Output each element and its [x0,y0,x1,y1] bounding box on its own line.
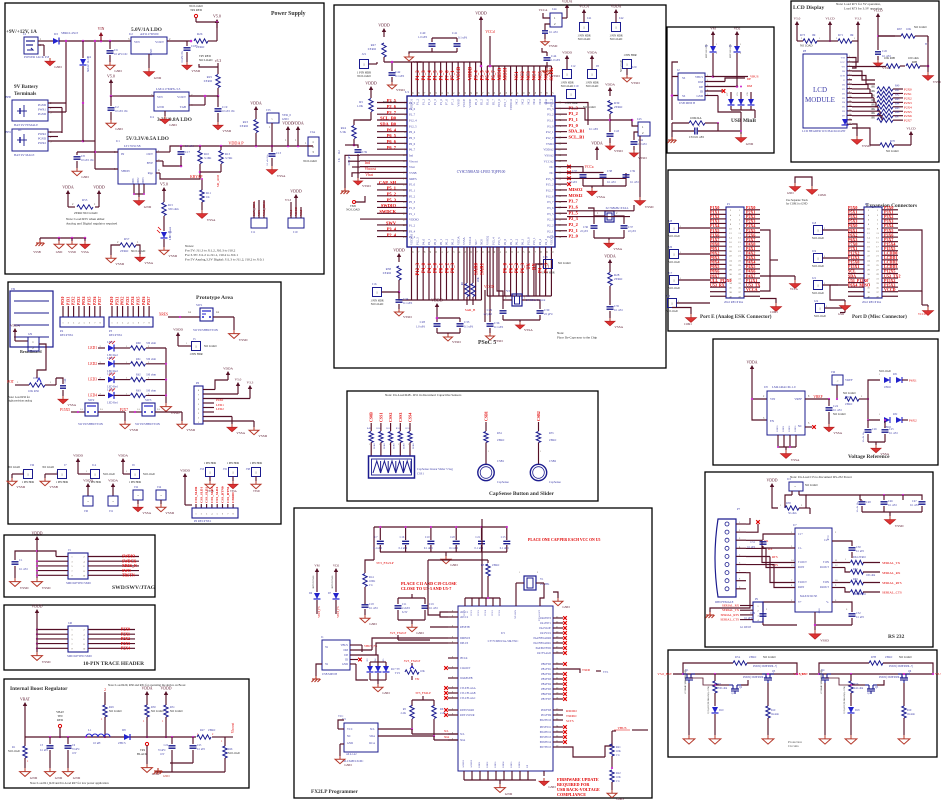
svg-text:IFCLK: IFCLK [460,657,468,660]
svg-text:R64 ZERO: R64 ZERO [853,556,866,559]
ground VCCD bottom right Port D [918,291,933,316]
ground VSSA under P6 [227,424,246,435]
svg-text:SCTS: SCTS [566,719,574,723]
svg-text:VSSA: VSSA [67,403,76,407]
ground VSSD under LED D6 [159,247,178,258]
test point VBAT TP0 RED [56,710,64,738]
svg-text:9: 9 [452,642,453,644]
svg-text:VSSD: VSSD [165,511,174,515]
resistor R62 100 ohm SERIAL_RX [832,568,901,578]
CapSense button CSB1 circle [478,459,510,484]
svg-text:NC: NC [347,735,351,738]
svg-text:VCC2: VCC2 [470,609,473,616]
resistor R26 NO LOAD right [221,737,240,772]
svg-text:C46: C46 [888,500,893,503]
svg-text:RDY0/SLRD: RDY0/SLRD [460,709,474,712]
ground under C18 [360,615,377,626]
svg-text:VCCA: VCCA [539,8,549,12]
svg-text:C8 0.01 uFd: C8 0.01 uFd [689,135,704,139]
label +9V/+12V 1A input [6,29,37,35]
svg-text:J16: J16 [372,282,377,286]
power flag VDDD above J10 [285,189,302,211]
svg-text:VDDA: VDDA [118,454,128,458]
svg-text:10K RIB: 10K RIB [884,56,895,60]
svg-text:NC2: NC2 [520,99,524,105]
svg-text:BZT52C5V6S: BZT52C5V6S [313,575,315,589]
svg-text:P12_3: P12_3 [416,237,420,245]
wire right bus from P2 rows to right edge [567,205,634,217]
svg-text:1: 1 [817,256,819,260]
ground VSSA under R57 right [135,254,154,265]
earth ground USB left [668,137,677,143]
block frame: CapSense Button and Slider [347,391,598,501]
ground under C28 C33 [444,333,462,344]
svg-text:C1-: C1- [798,547,802,550]
svg-text:VCCD: VCCD [918,313,926,316]
resistor R31 NO LOAD [162,700,183,738]
svg-text:VDDA: VDDA [605,83,615,87]
svg-text:R43: R43 [895,98,900,101]
power flag VDDD trace header [32,605,43,625]
ground VSSD under P6 [249,427,268,438]
svg-text:SS: SS [682,76,686,80]
resistor R7B ZERO NO LOAD bypass [819,656,933,674]
svg-text:BH1: BH1 [5,130,11,134]
wires SCL SDA to U5 [412,730,458,740]
red note PLACE ONE CAP [528,538,600,542]
svg-text:Prototype Area: Prototype Area [196,295,233,301]
svg-text:P2_2: P2_2 [569,222,578,227]
svg-text:V3.3: V3.3 [935,672,941,676]
ground under U5 right [539,778,556,789]
svg-text:V3.3: V3.3 [855,17,862,21]
svg-text:P7_0: P7_0 [445,99,449,106]
power flag V5.0 top [213,14,221,29]
svg-text:P2X2: P2X2 [121,637,130,641]
svg-text:R54: R54 [497,432,502,435]
power flag VDDA above P6 [223,367,233,381]
svg-text:VIN: VIN [134,40,140,44]
power flag VLCD bottom right [906,127,916,141]
svg-text:NC1: NC1 [515,71,520,81]
ground GND under C6 [63,768,81,780]
ground VSSD right LCD [923,66,941,84]
svg-text:P0X0: P0X0 [61,296,65,305]
ground under J36 [7,478,26,489]
svg-text:VCCA: VCCA [790,288,798,291]
svg-text:9: 9 [452,709,453,711]
svg-text:1: 1 [817,228,819,232]
bottom jumper J30 with VDDD [83,479,93,514]
svg-text:PB0/FD0: PB0/FD0 [541,663,552,666]
LED D4 with resistor R63 330 ohm [88,388,166,404]
transistor Q1 PMOS FDN306P [683,669,695,735]
svg-text:TAB: TAB [180,105,186,109]
svg-text:VSSD: VSSD [895,524,904,528]
svg-text:P15_1: P15_1 [532,237,536,245]
svg-text:12: 12 [849,105,851,107]
svg-text:R14: R14 [369,576,374,579]
svg-text:R1IN: R1IN [798,566,804,569]
svg-text:J24: J24 [814,299,819,303]
svg-text:22: 22 [556,678,558,680]
svg-text:1: 1 [540,451,541,453]
svg-text:PB3/FD3: PB3/FD3 [541,678,552,681]
svg-text:VSSD: VSSD [631,81,640,85]
svg-text:GND: GND [169,123,177,127]
svg-text:P2X1: P2X1 [904,92,912,96]
capacitor C41 0.1uFd [452,31,468,52]
resistor R26 ZERO [194,28,217,49]
svg-text:10K: 10K [871,103,876,106]
svg-text:CY7C68013A-56LTXC: CY7C68013A-56LTXC [488,639,519,643]
svg-text:VBUS: VBUS [695,75,703,79]
svg-text:J34: J34 [157,485,162,489]
svg-text:P2_3: P2_3 [547,218,554,222]
svg-text:J4: J4 [23,32,26,36]
svg-text:AP1117D500: AP1117D500 [140,32,159,36]
svg-text:ZERO: ZERO [204,79,213,83]
svg-text:PA4/FIFOADR0: PA4/FIFOADR0 [534,637,552,640]
svg-text:P5_3: P5_3 [387,197,397,202]
svg-text:GND2: GND2 [137,177,140,185]
svg-text:VSSD: VSSD [452,340,461,344]
svg-text:BAT 9V MALE: BAT 9V MALE [14,153,34,157]
header J17 1 PIN HDR NO LOAD [668,271,710,290]
svg-text:C37: C37 [572,169,578,173]
svg-text:J8: J8 [596,64,599,68]
block frame: 10-PIN TRACE HEADER [4,605,155,670]
svg-text:VDDD: VDDD [73,454,83,458]
svg-text:1 PIN HDR: 1 PIN HDR [564,102,577,105]
svg-text:1: 1 [519,572,520,574]
svg-text:P2_4: P2_4 [387,232,397,237]
svg-text:1 PIN HDR: 1 PIN HDR [204,462,217,465]
header J44 2-pin [539,7,562,30]
svg-text:C1: C1 [19,558,23,562]
svg-text:VBUS: VBUS [750,75,759,79]
svg-text:1: 1 [615,25,617,29]
svg-text:VCCA: VCCA [746,287,758,292]
capacitor C42 0.1uFd [389,61,405,82]
svg-text:VDDA: VDDA [456,236,460,245]
svg-text:PWR2: PWR2 [38,132,47,136]
resistor R13 3.74K [219,146,233,172]
ground under SW1 [229,330,248,342]
svg-text:P3_2: P3_2 [569,111,578,116]
svg-text:GND: GND [73,776,81,780]
svg-text:2A: 2A [157,408,160,411]
svg-text:P15_2: P15_2 [546,183,554,187]
svg-text:R71: R71 [838,33,844,37]
svg-text:ZERO: ZERO [492,564,499,567]
connector P4 RECP 8X1 with red labels [60,296,104,337]
svg-text:XRES: XRES [409,177,417,181]
svg-text:VM: VM [710,27,715,31]
svg-text:ZERO: ZERO [412,443,415,450]
svg-text:SCL: SCL [444,730,449,733]
resistor R68 ZERO SERIAL_CTS [832,588,902,597]
svg-text:J30: J30 [84,509,89,513]
svg-text:J13: J13 [666,294,671,298]
svg-text:VIN: VIN [157,95,163,99]
svg-text:0.1 uFd: 0.1 uFd [403,301,413,305]
svg-text:1: 1 [547,262,549,266]
ground VSSA under C26 [871,442,890,456]
svg-text:Note: Un-Load J15 to disconnec: Note: Un-Load J15 to disconnect RS-232 P… [790,475,853,479]
svg-text:0R: 0R [850,33,854,37]
svg-text:C44: C44 [638,138,644,142]
svg-text:0.1 uFd: 0.1 uFd [464,325,474,329]
svg-text:20K: 20K [477,277,480,282]
svg-text:J11: J11 [251,230,256,234]
svg-text:11: 11 [849,101,851,103]
svg-text:P2X3: P2X3 [121,642,130,646]
power label v3.3 [215,59,221,74]
capacitor C11 2.2uFd [395,598,411,620]
earth ground left of J1 [312,664,323,682]
svg-text:P1_3: P1_3 [421,99,425,106]
svg-text:1: 1 [134,472,136,476]
svg-text:P2_1: P2_1 [547,229,554,233]
svg-text:R44: R44 [895,102,900,105]
svg-text:1: 1 [673,226,675,230]
svg-text:CSS_SLD3: CSS_SLD3 [210,486,214,503]
svg-text:P2X6: P2X6 [904,114,912,118]
svg-text:NO LOAD: NO LOAD [610,38,623,41]
svg-text:VSSA: VSSA [462,236,466,245]
svg-text:0.1 uFd: 0.1 uFd [549,31,558,34]
svg-text:VBAT: VBAT [20,698,31,702]
svg-text:+9V/+12V, 1A: +9V/+12V, 1A [6,29,37,35]
svg-text:P7_1: P7_1 [451,70,456,81]
svg-text:RECP 8X1: RECP 8X1 [60,333,74,337]
U5 right pin rows with no-connect marks [534,616,609,757]
svg-text:VSSB: VSSB [49,485,58,489]
svg-text:R2IN: R2IN [798,586,804,589]
svg-text:PB1/FD1: PB1/FD1 [541,668,552,671]
svg-text:V5.0: V5.0 [794,17,801,21]
header J28 1 PIN HDR NO LOAD [668,219,710,238]
svg-text:VSSD: VSSD [549,44,558,48]
svg-text:USB MINI B: USB MINI B [322,673,337,676]
svg-text:J15: J15 [787,477,792,481]
svg-text:SD_ADJ: SD_ADJ [216,174,220,187]
svg-text:GND: GND [838,313,844,316]
svg-text:P6_4: P6_4 [387,127,397,132]
svg-text:10K: 10K [420,670,425,673]
svg-text:CSS1: CSS1 [417,472,424,476]
note load R55 text [66,217,118,226]
svg-text:9: 9 [452,626,453,628]
svg-text:CapSense Linear Slider 5 Seg: CapSense Linear Slider 5 Seg [417,467,453,471]
svg-text:VIN: VIN [770,397,776,401]
pushbutton SW1 XRES [159,303,234,332]
svg-text:U4: U4 [150,115,154,119]
svg-text:J3A: J3A [310,130,316,134]
svg-text:VSSD: VSSD [186,428,195,432]
resistor R1 NO LOAD left [8,737,29,768]
svg-text:VSSD: VSSD [820,639,829,643]
svg-text:P2_6: P2_6 [387,104,397,109]
svg-text:1.0 uFd: 1.0 uFd [568,181,577,184]
svg-text:P6_2: P6_2 [515,262,520,273]
IC U5 CY7C68013A-56LTXC [458,519,553,771]
svg-text:P6_5: P6_5 [387,133,397,138]
svg-text:VCC5: VCC5 [491,609,494,616]
svg-text:VSSD: VSSD [396,88,405,92]
red note PLACE C11 C19 [401,581,457,591]
capacitor C18 0.1uFd [362,603,379,615]
earth ground DB9 [706,608,715,618]
svg-text:P1_1: P1_1 [409,212,416,216]
svg-text:PGND: PGND [38,103,47,107]
svg-text:C10: C10 [425,536,430,539]
ground under C11 C19 [398,620,425,635]
svg-text:ZERO: ZERO [240,124,249,128]
svg-text:P15_6: P15_6 [497,99,501,107]
power flag VDDD above C28 [431,298,443,313]
svg-text:J31: J31 [109,509,114,513]
svg-text:CapSense: CapSense [497,480,510,484]
svg-text:T2OUT: T2OUT [798,581,807,584]
resistor R58 50 ohm [780,502,810,515]
svg-text:GND: GND [562,605,570,609]
diode pair D12 P6X1 [868,370,917,399]
wire Port E right bus to ground [760,230,778,291]
svg-text:1 PIN HDR: 1 PIN HDR [541,272,554,275]
svg-text:SMAZ 12-13: SMAZ 12-13 [87,56,90,72]
svg-text:0.1 uFd: 0.1 uFd [889,432,898,435]
svg-text:C35: C35 [614,304,620,308]
svg-text:NC7: NC7 [474,239,478,245]
svg-text:P1_2: P1_2 [416,70,421,81]
bottom jumper J31 with VDDA [108,479,118,514]
svg-text:NO LOAD: NO LOAD [886,150,899,153]
svg-text:VSSD: VSSD [115,262,124,266]
IC U3 24LC64 EEPROM [338,715,435,763]
svg-text:1: 1 [488,451,489,453]
svg-text:L1: L1 [88,728,92,732]
diode D8 ESD vertical [729,40,742,64]
svg-text:LED2: LED2 [88,362,97,366]
svg-text:J40: J40 [68,621,73,625]
svg-text:MODULE: MODULE [805,96,835,104]
ground under LED bus [161,403,180,415]
svg-text:VSSA: VSSA [277,174,286,178]
capacitor C8 0.01uFd [672,123,718,139]
svg-text:PD4/FD12: PD4/FD12 [540,731,552,734]
svg-text:22 pFd: 22 pFd [484,312,493,316]
svg-text:R32: R32 [893,413,898,416]
svg-text:1.0 uFd: 1.0 uFd [418,35,428,39]
svg-text:ZHCS: ZHCS [118,741,126,745]
svg-text:P3_4: P3_4 [409,229,416,233]
svg-text:R19: R19 [907,709,912,712]
svg-text:P1X5: P1X5 [88,296,92,305]
svg-text:AGND2: AGND2 [470,759,473,768]
bottom header J7 [42,463,68,484]
resistor R54 ZERO button 1 [484,411,505,464]
svg-text:R57: R57 [124,237,130,241]
capacitor C40 1.0uFd [418,31,436,52]
svg-text:1/2 W&B2 (DM FDN306P): 1/2 W&B2 (DM FDN306P) [820,669,823,694]
svg-text:P2X7: P2X7 [904,119,912,123]
wire U7 GND to ground [814,612,816,630]
ground VSSD under J44 [541,39,558,48]
svg-text:10K: 10K [616,750,621,753]
svg-text:2.2uFd: 2.2uFd [402,607,410,610]
capacitor under J44 0.1uFd [542,31,558,39]
svg-text:ZERO: ZERO [885,656,892,659]
svg-text:XRES: XRES [159,313,168,317]
svg-text:P0_1: P0_1 [439,238,443,245]
svg-text:SWDCK: SWDCK [379,209,396,214]
svg-text:Note: Load R1_R20 and Un-Load: Note: Load R1_R20 and Un-Load R27 for lo… [30,781,109,785]
svg-text:P2_5: P2_5 [409,101,416,105]
svg-text:R47: R47 [895,116,900,119]
svg-text:MISO2: MISO2 [569,187,583,192]
svg-text:21: 21 [556,683,558,685]
svg-text:J18: J18 [543,255,548,259]
resistor R30 ZERO NO LOAD [843,392,869,406]
svg-text:PD3/FD11: PD3/FD11 [540,726,552,729]
svg-text:AGND1: AGND1 [462,759,465,768]
svg-text:P6_3: P6_3 [521,262,526,273]
svg-text:VSSD: VSSD [258,434,267,438]
svg-text:BAT 9V FEMALE: BAT 9V FEMALE [14,123,38,127]
svg-text:10K: 10K [871,94,876,97]
svg-text:PWR2: PWR2 [38,141,47,145]
svg-text:V5.0_BST: V5.0_BST [657,672,673,676]
svg-text:0.1 uFd: 0.1 uFd [856,616,865,619]
bottom header J9 with VDDA [118,454,155,485]
block frame: SWD/SWV/JTAG [4,535,156,597]
svg-text:10K R56: 10K R56 [28,389,39,393]
svg-text:C2: C2 [115,105,119,109]
capacitor C20 0.1uFd FX2LP [449,526,460,552]
svg-text:VSSA: VSSA [142,511,151,515]
svg-text:Power Supply: Power Supply [271,11,306,17]
svg-text:GND6: GND6 [518,761,521,768]
svg-text:P2X2: P2X2 [904,96,912,100]
svg-text:P0X2: P0X2 [121,296,125,305]
svg-text:D8: D8 [122,728,126,732]
svg-text:VSSD2: VSSD2 [485,235,489,245]
svg-text:P2_6: P2_6 [409,107,416,111]
wires USB connector pins [705,64,759,112]
svg-text:P15_5: P15_5 [497,237,501,245]
resistor RA 100K [672,116,719,125]
svg-text:NO LOAD: NO LOAD [131,249,146,253]
svg-text:J44: J44 [552,7,557,11]
svg-text:SBR10-45LT: SBR10-45LT [61,31,78,35]
ground VSSA under Y3 crystal [516,322,534,332]
ground under R19 [898,735,910,744]
svg-text:VCC6: VCC6 [498,609,501,616]
capacitor C44 1.0uFd [542,48,561,78]
capacitor C13 [266,146,282,166]
svg-text:PD6/FD14: PD6/FD14 [540,741,552,744]
svg-text:PA3/WU2: PA3/WU2 [540,632,551,635]
svg-text:GND: GND [149,48,153,55]
capacitor C34 0.1uFd [396,292,413,309]
svg-text:0.1 uFd: 0.1 uFd [429,607,438,610]
svg-text:VSSD: VSSD [413,60,422,64]
vertical bus on far right to VSSD [635,136,654,209]
svg-text:PGND: PGND [38,137,47,141]
svg-text:1: 1 [626,62,628,66]
